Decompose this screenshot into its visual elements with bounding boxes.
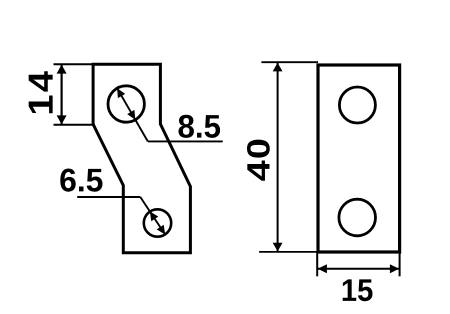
hole top-left (8.5 dia) <box>108 86 144 122</box>
dimension 40: top extension line <box>261 61 318 63</box>
label 6.5 <box>60 169 102 192</box>
leader 6.5: diagonal diameter line through bottom hole <box>140 197 165 235</box>
leader 6.5: arrowhead lower-right <box>157 225 166 235</box>
dimension 15: dimension line <box>317 268 399 270</box>
dimension 40: bottom arrowhead <box>273 243 283 252</box>
dimension 14: top arrowhead <box>57 65 67 74</box>
hole bottom-right <box>339 199 376 236</box>
label 15 <box>343 279 373 301</box>
leader 8.5: horizontal shelf line <box>148 140 223 142</box>
label 8.5 <box>179 115 221 138</box>
leader 8.5: arrowhead lower-right <box>127 110 135 120</box>
dimension 40: top arrowhead <box>273 63 283 72</box>
leader 6.5: horizontal shelf line <box>77 196 140 198</box>
right plate outline (front view rectangle) <box>318 65 400 252</box>
label 14 (rotated) <box>29 71 53 113</box>
dimension 15: right arrowhead <box>390 264 399 273</box>
dimension 15: right extension line <box>399 252 401 276</box>
leader 8.5: arrowhead upper-left <box>117 88 125 98</box>
dimension 15: left arrowhead <box>318 264 327 273</box>
dimension 14: dimension line <box>60 64 62 124</box>
dimension 14: bottom extension line <box>54 124 96 126</box>
label 40 (rotated) <box>247 140 270 181</box>
hole bottom-left (6.5 dia) <box>144 209 171 236</box>
hole top-right <box>339 87 375 123</box>
leader 6.5: arrowhead upper-left <box>150 211 159 221</box>
dimension 40: dimension line <box>277 62 279 252</box>
dimension 15: left extension line <box>316 252 318 276</box>
dimension 14: bottom arrowhead <box>57 115 67 124</box>
dimension 40: bottom extension line <box>259 251 317 253</box>
dimension 14: top extension line <box>54 63 96 65</box>
leader 8.5: diagonal diameter line through top hole <box>117 88 148 141</box>
left plate outline (Z-shaped side view) <box>93 64 190 252</box>
